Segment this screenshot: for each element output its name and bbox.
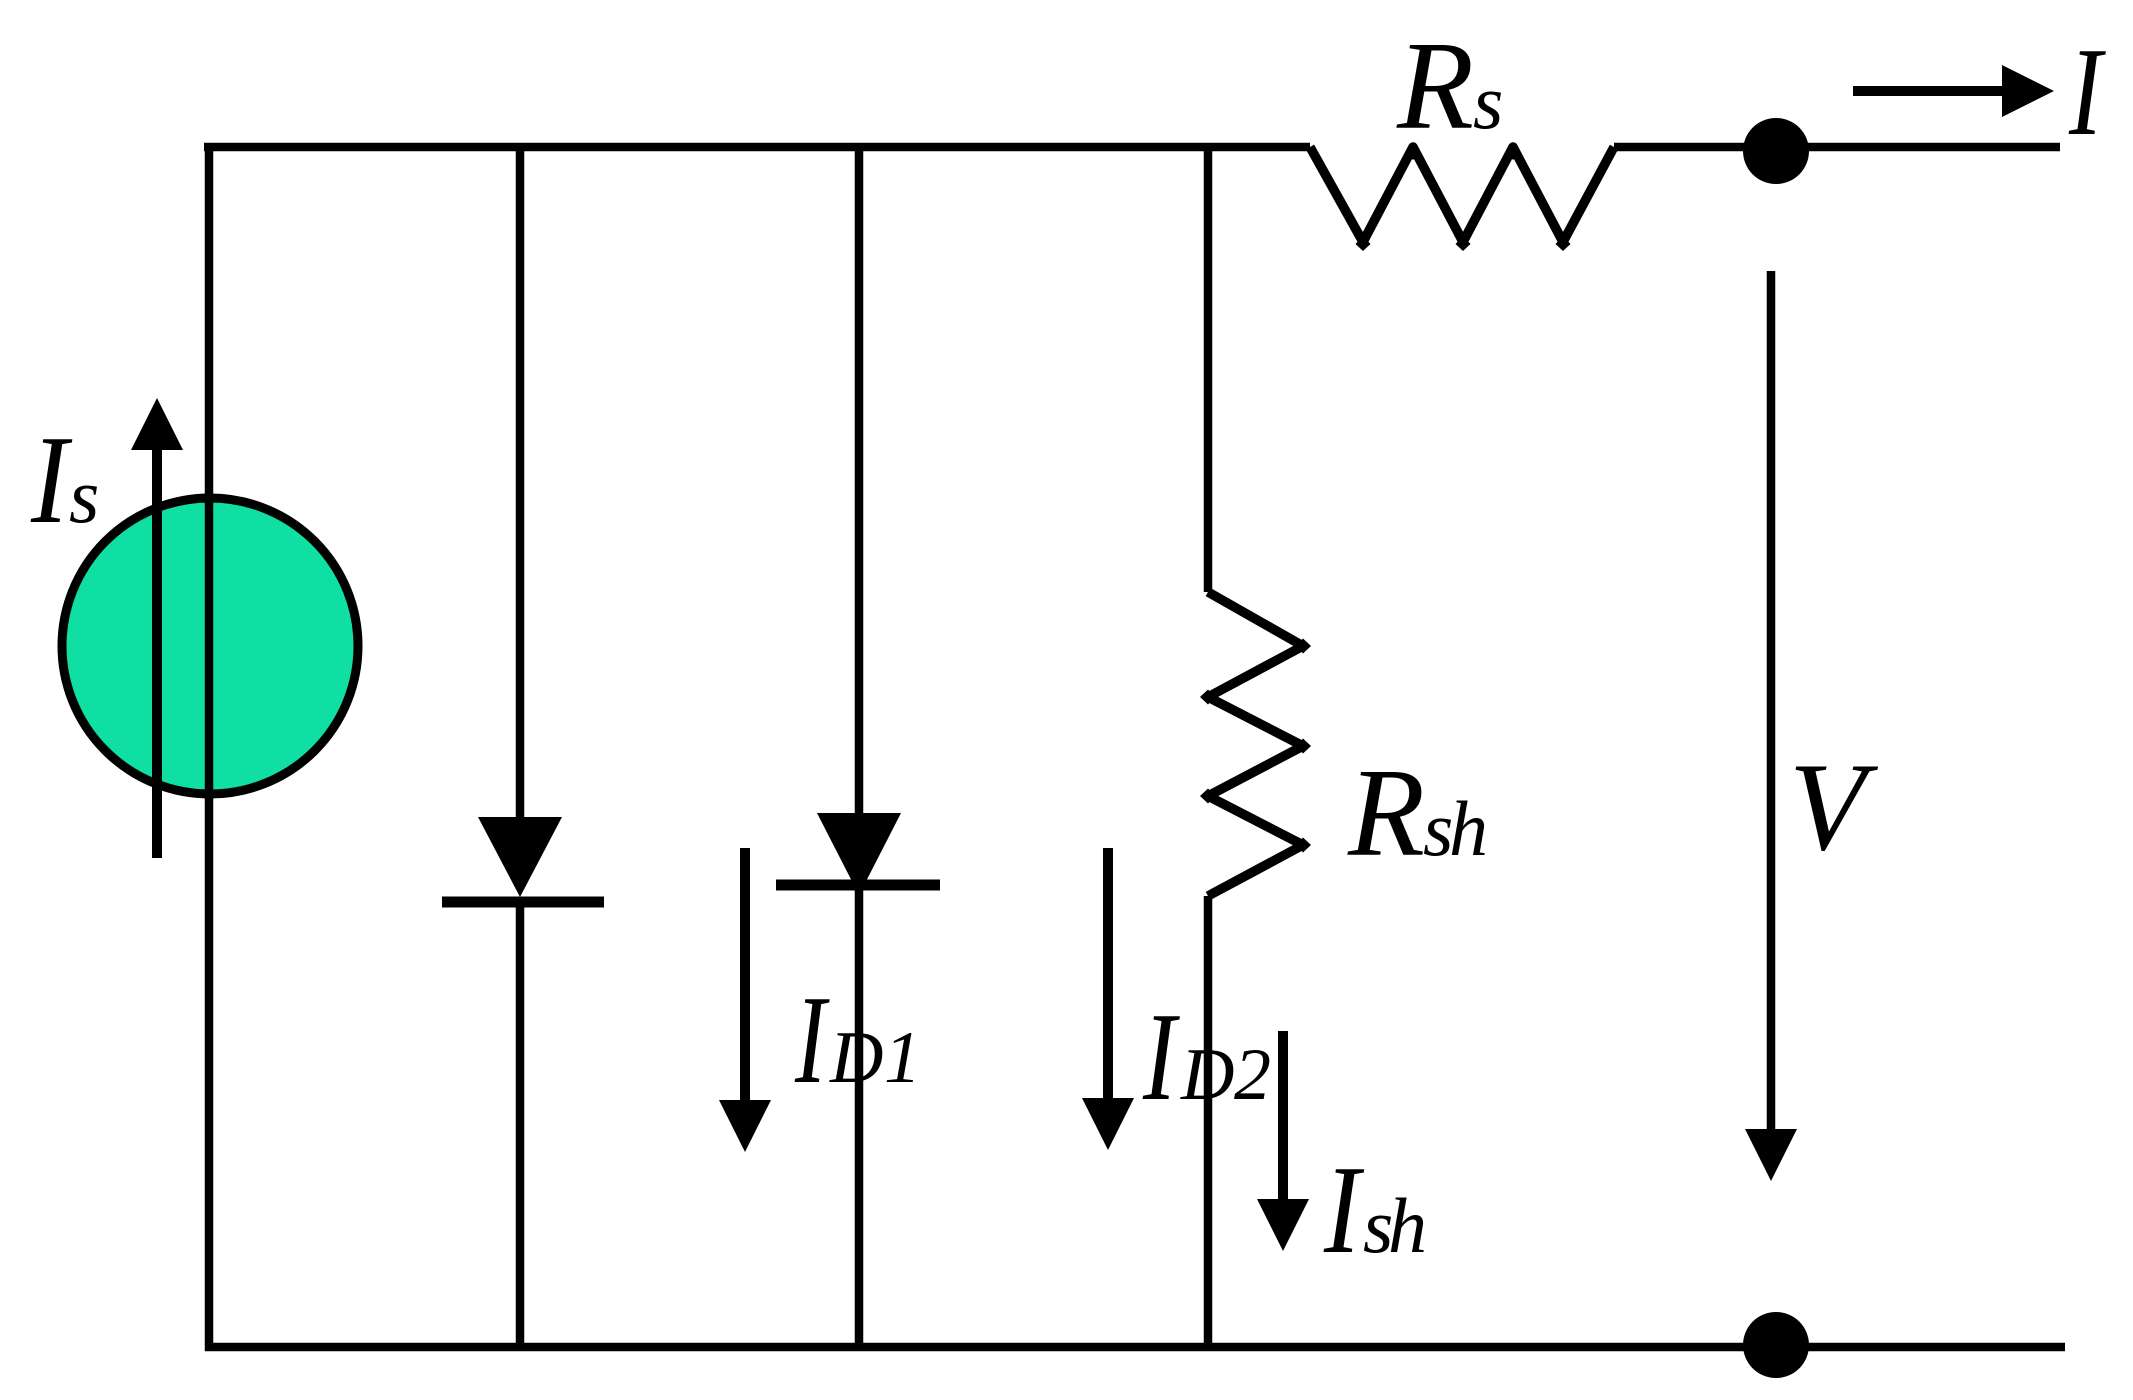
svg-text:V: V xyxy=(1789,738,1879,877)
svg-text:I: I xyxy=(794,971,829,1110)
svg-text:I: I xyxy=(1323,1141,1364,1280)
svg-text:D: D xyxy=(829,1017,883,1099)
svg-text:s: s xyxy=(1473,58,1503,145)
svg-text:1: 1 xyxy=(884,1017,921,1099)
svg-text:s: s xyxy=(69,452,99,539)
svg-text:I: I xyxy=(30,411,72,550)
svg-text:2: 2 xyxy=(1234,1034,1271,1116)
svg-text:I: I xyxy=(2068,23,2106,162)
svg-text:h: h xyxy=(1449,785,1488,872)
svg-text:h: h xyxy=(1388,1182,1427,1269)
svg-text:R: R xyxy=(1347,744,1425,883)
svg-text:R: R xyxy=(1396,17,1474,156)
svg-text:I: I xyxy=(1142,988,1180,1127)
svg-text:D: D xyxy=(1180,1034,1234,1116)
